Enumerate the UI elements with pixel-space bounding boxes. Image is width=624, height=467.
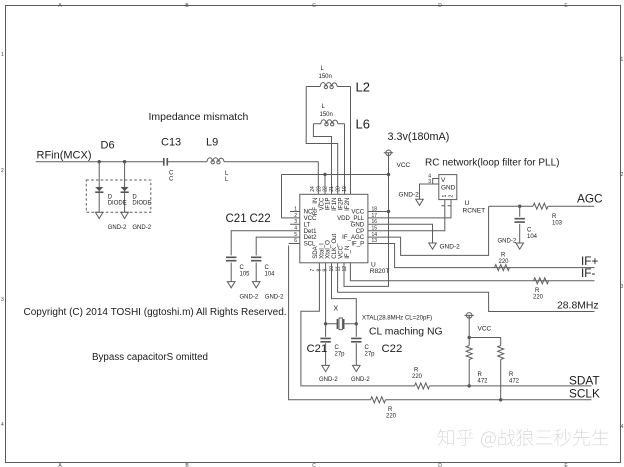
svg-text:AGC: AGC <box>577 192 603 206</box>
svg-text:150n: 150n <box>319 74 332 80</box>
svg-text:IF-: IF- <box>581 266 595 280</box>
svg-text:3.3v(180mA): 3.3v(180mA) <box>388 131 450 143</box>
svg-text:IF_P: IF_P <box>351 241 364 248</box>
svg-text:C22: C22 <box>382 343 403 355</box>
svg-text:C: C <box>527 228 532 234</box>
svg-text:220: 220 <box>386 414 397 420</box>
svg-text:V: V <box>441 177 446 184</box>
svg-text:GND-2: GND-2 <box>265 295 284 301</box>
svg-text:3: 3 <box>1 297 4 303</box>
svg-text:GND-2: GND-2 <box>351 377 370 383</box>
svg-text:VCC: VCC <box>397 162 411 169</box>
svg-text:Bypass capacitorS omitted: Bypass capacitorS omitted <box>92 352 208 363</box>
svg-text:472: 472 <box>509 379 520 385</box>
svg-text:2: 2 <box>621 172 624 178</box>
svg-text:19: 19 <box>342 186 348 192</box>
svg-text:R: R <box>414 368 419 374</box>
svg-text:21: 21 <box>329 186 335 192</box>
svg-text:GND-2: GND-2 <box>108 225 127 231</box>
svg-text:4: 4 <box>1 422 4 428</box>
svg-text:GND-2: GND-2 <box>399 192 420 199</box>
svg-text:L6: L6 <box>356 117 370 132</box>
svg-text:12: 12 <box>342 266 348 272</box>
svg-text:C: C <box>335 345 340 351</box>
svg-text:Copyright (C) 2014 TOSHI (ggto: Copyright (C) 2014 TOSHI (ggtoshi.m) All… <box>24 307 287 318</box>
svg-text:220: 220 <box>499 259 510 265</box>
svg-text:220: 220 <box>533 295 544 301</box>
svg-text:SCLK: SCLK <box>569 387 600 401</box>
svg-text:GND-2: GND-2 <box>440 244 461 251</box>
svg-text:1: 1 <box>1 52 4 58</box>
svg-text:R: R <box>501 253 506 259</box>
svg-text:DIODE: DIODE <box>108 201 127 207</box>
svg-text:L2: L2 <box>356 80 370 95</box>
svg-text:R820T: R820T <box>370 268 390 275</box>
svg-text:R: R <box>388 407 393 413</box>
svg-text:RC network(loop filter for PLL: RC network(loop filter for PLL) <box>425 158 560 169</box>
svg-text:GND-2: GND-2 <box>498 239 517 245</box>
svg-text:GND-2: GND-2 <box>132 225 151 231</box>
svg-text:GND-2: GND-2 <box>319 377 338 383</box>
svg-text:R: R <box>535 288 540 294</box>
svg-text:X: X <box>334 306 339 313</box>
svg-text:U: U <box>465 200 470 207</box>
svg-text:D: D <box>438 463 442 467</box>
svg-text:24: 24 <box>310 186 316 192</box>
svg-text:22: 22 <box>323 186 329 192</box>
svg-text:104: 104 <box>265 272 276 278</box>
svg-text:C: C <box>169 177 174 183</box>
svg-text:SDAT: SDAT <box>569 374 600 388</box>
svg-text:20: 20 <box>336 186 342 192</box>
svg-text:105: 105 <box>240 272 251 278</box>
svg-text:150n: 150n <box>320 112 333 118</box>
svg-text:CL maching NG: CL maching NG <box>369 327 443 338</box>
svg-text:D: D <box>438 3 442 9</box>
svg-text:C13: C13 <box>161 137 181 149</box>
svg-text:C: C <box>312 463 316 467</box>
svg-text:472: 472 <box>478 379 489 385</box>
svg-text:C: C <box>240 265 245 271</box>
svg-text:3: 3 <box>294 219 297 225</box>
svg-text:RFin(MCX): RFin(MCX) <box>37 150 92 162</box>
svg-text:2: 2 <box>294 213 297 219</box>
svg-text:GND: GND <box>441 185 456 192</box>
svg-text:RCNET: RCNET <box>463 208 486 215</box>
svg-text:R: R <box>509 372 514 378</box>
svg-text:1: 1 <box>294 206 297 212</box>
svg-text:23: 23 <box>316 186 322 192</box>
svg-text:IF2N: IF2N <box>344 198 351 211</box>
svg-text:28.8MHz: 28.8MHz <box>557 301 599 312</box>
svg-text:27p: 27p <box>365 352 376 358</box>
svg-text:4: 4 <box>621 424 624 430</box>
svg-text:D: D <box>132 195 137 201</box>
svg-text:GND-2: GND-2 <box>240 295 259 301</box>
svg-text:3: 3 <box>621 284 624 290</box>
svg-text:VCC: VCC <box>478 326 492 333</box>
svg-text:D6: D6 <box>101 140 115 152</box>
svg-text:C: C <box>265 265 270 271</box>
svg-text:2: 2 <box>1 168 4 174</box>
svg-text:1: 1 <box>621 57 624 63</box>
svg-text:IF_N: IF_N <box>344 246 351 259</box>
svg-text:XTAL(28.8MHz CL=20pF): XTAL(28.8MHz CL=20pF) <box>362 314 432 321</box>
svg-text:220: 220 <box>412 374 423 380</box>
svg-text:2: 2 <box>448 195 454 198</box>
svg-text:C: C <box>365 345 370 351</box>
svg-text:C21: C21 <box>307 343 328 355</box>
svg-text:C22: C22 <box>250 213 271 225</box>
svg-text:1: 1 <box>442 195 448 198</box>
svg-text:D: D <box>108 195 113 201</box>
svg-text:27p: 27p <box>335 352 346 358</box>
svg-text:DIODE: DIODE <box>132 201 151 207</box>
svg-text:R: R <box>478 372 483 378</box>
svg-text:104: 104 <box>527 234 538 240</box>
svg-text:7: 7 <box>310 269 316 272</box>
svg-text:C21: C21 <box>226 213 247 225</box>
svg-text:11: 11 <box>336 266 342 271</box>
svg-text:L9: L9 <box>206 137 218 149</box>
svg-text:Impedance mismatch: Impedance mismatch <box>149 111 249 123</box>
svg-text:103: 103 <box>552 221 563 227</box>
svg-text:R: R <box>552 214 557 220</box>
svg-text:C: C <box>312 3 316 9</box>
svg-text:10: 10 <box>329 266 335 272</box>
